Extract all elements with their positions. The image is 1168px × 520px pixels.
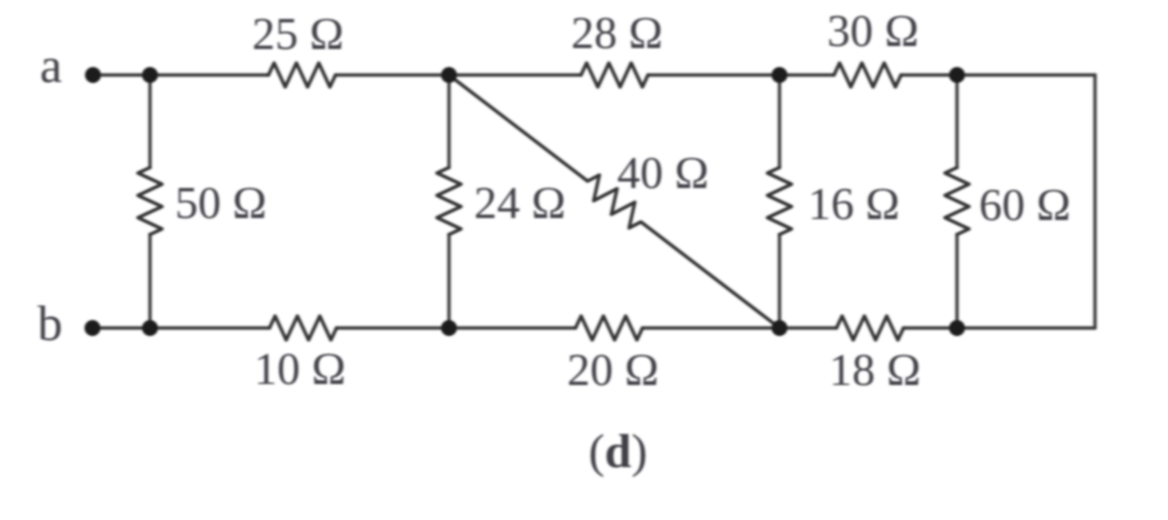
svg-text:10 Ω: 10 Ω xyxy=(254,343,346,394)
svg-text:50 Ω: 50 Ω xyxy=(175,177,267,228)
svg-text:18 Ω: 18 Ω xyxy=(829,344,921,395)
svg-text:30 Ω: 30 Ω xyxy=(827,5,919,56)
svg-text:40 Ω: 40 Ω xyxy=(617,147,709,198)
svg-text:(d): (d) xyxy=(589,425,648,478)
svg-text:a: a xyxy=(40,37,62,93)
svg-text:24 Ω: 24 Ω xyxy=(474,177,566,228)
svg-text:25 Ω: 25 Ω xyxy=(252,8,344,59)
svg-text:60 Ω: 60 Ω xyxy=(979,179,1071,230)
svg-text:28 Ω: 28 Ω xyxy=(571,7,663,58)
svg-text:20 Ω: 20 Ω xyxy=(567,344,659,395)
svg-text:b: b xyxy=(38,295,63,351)
svg-text:16 Ω: 16 Ω xyxy=(808,178,900,229)
